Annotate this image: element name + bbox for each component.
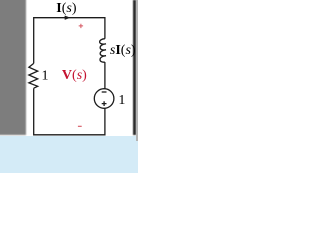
voltage source V1 [94,89,114,109]
wire right-bottom-left lower loop [34,88,105,135]
wire left-top-right upper loop [34,18,105,64]
svg-text:1: 1 [118,93,125,108]
blue band [0,136,138,173]
svg-text:I(s): I(s) [56,1,77,16]
source plus sign [102,101,107,106]
inductor L [100,39,106,62]
svg-text:V(s): V(s) [62,68,87,83]
right border line [133,0,136,135]
source minus sign [102,91,107,93]
polarity plus (red) [79,24,83,28]
svg-text:1: 1 [42,69,49,84]
polarity minus (red) [78,125,82,127]
current arrow I(s) [65,16,70,20]
right edge strip [136,0,138,141]
gray sidebar [0,0,26,135]
resistor R 1 [29,63,38,88]
svg-text:sI(s): sI(s) [110,43,136,58]
wire right middle [104,62,106,89]
